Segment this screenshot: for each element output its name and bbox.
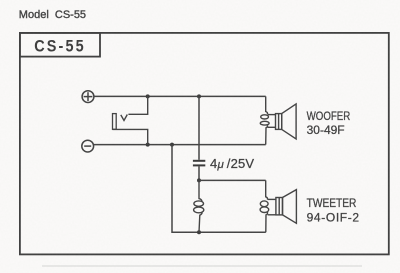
tweeter branch: drop from top rail	[260, 180, 276, 232]
inductor L1 (tweeter shunt coil)	[194, 180, 204, 232]
wire: sleeve return	[113, 129, 148, 144]
node: capacitor top junction	[197, 94, 201, 98]
node: tweeter top rail junction	[197, 178, 201, 182]
wire: capacitor branch upper lead	[198, 96, 200, 159]
wire: capacitor branch lower lead	[198, 166, 200, 180]
jack J1 (input phone jack)	[113, 96, 148, 144]
terminal + (positive input)	[82, 91, 94, 103]
terminal - (negative input)	[82, 140, 94, 152]
wire: voice coil to return	[266, 125, 268, 144]
node: jack ground junction	[146, 143, 150, 147]
tweeter voice coil loops	[260, 201, 268, 207]
woofer branch: series drop from top rail	[260, 96, 275, 144]
node: jack hot junction	[146, 94, 150, 98]
tip spring V	[121, 115, 128, 121]
schematic border frame	[20, 33, 389, 255]
woofer voice coil loops	[261, 115, 269, 119]
model label box CS-55	[20, 33, 100, 57]
speaker SP2 tweeter	[276, 190, 297, 224]
node: shunt inductor bottom junction	[197, 230, 201, 234]
node: tweeter return junction on bottom rail	[170, 143, 174, 147]
wire: tweeter top rail	[199, 179, 266, 181]
capacitor C1 4u/25V	[193, 160, 205, 167]
wire: top rail from + to woofer branch	[94, 95, 266, 97]
faint scan crease line at bottom	[42, 265, 362, 266]
wire: woofer terminal stubs	[268, 114, 276, 116]
speaker SP1 woofer	[276, 104, 297, 139]
wire: tip contact drop	[128, 96, 147, 114]
wire: voice coil to bottom rail	[266, 212, 268, 232]
wire: tweeter terminal stubs	[268, 198, 276, 200]
wire: tweeter return drop and bottom rail	[172, 145, 266, 233]
wire: drop from tweeter rail to voice coil	[266, 180, 268, 199]
wire: drop from top rail to voice coil	[266, 96, 268, 114]
wire: bottom rail from - to woofer return	[94, 144, 266, 146]
plug body	[113, 114, 117, 130]
